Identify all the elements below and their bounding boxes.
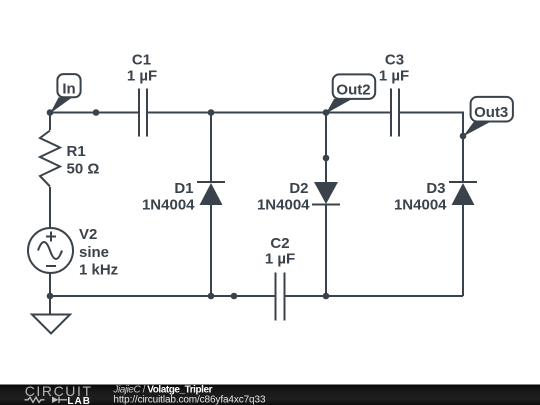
svg-text:V2: V2 xyxy=(79,226,97,243)
svg-text:C3: C3 xyxy=(385,52,404,69)
svg-text:1 µF: 1 µF xyxy=(127,68,157,85)
svg-text:D2: D2 xyxy=(289,180,308,197)
svg-text:1 µF: 1 µF xyxy=(265,251,295,268)
svg-text:http://circuitlab.com/c86yfa4x: http://circuitlab.com/c86yfa4xc7q33 xyxy=(113,394,266,405)
svg-text:Out3: Out3 xyxy=(474,104,508,121)
svg-text:LAB: LAB xyxy=(67,396,91,405)
svg-text:D3: D3 xyxy=(426,180,445,197)
svg-text:50 Ω: 50 Ω xyxy=(67,161,100,178)
svg-text:Out2: Out2 xyxy=(336,82,370,99)
svg-text:C1: C1 xyxy=(132,52,151,69)
svg-text:In: In xyxy=(62,81,75,98)
svg-text:D1: D1 xyxy=(174,180,193,197)
svg-text:1 kHz: 1 kHz xyxy=(79,262,118,279)
svg-text:1N4004: 1N4004 xyxy=(142,197,195,214)
svg-text:sine: sine xyxy=(79,244,109,261)
svg-text:1N4004: 1N4004 xyxy=(257,197,310,214)
svg-text:R1: R1 xyxy=(67,143,86,160)
svg-text:1N4004: 1N4004 xyxy=(394,197,447,214)
svg-text:C2: C2 xyxy=(270,235,289,252)
svg-text:1 µF: 1 µF xyxy=(379,68,409,85)
